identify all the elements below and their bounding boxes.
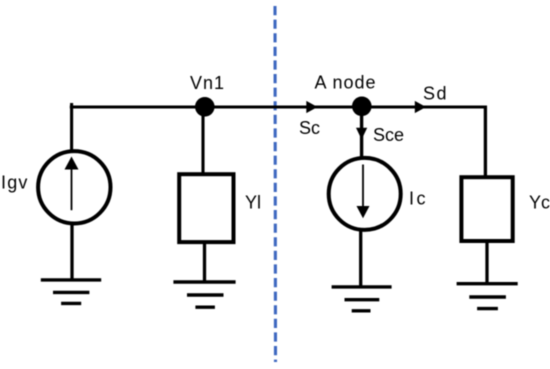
svg-text:Vn1: Vn1 bbox=[190, 73, 225, 93]
ground (Ic) bbox=[332, 287, 392, 311]
svg-text:Igv: Igv bbox=[1, 172, 29, 192]
wire top horizontal (Igv node to Yc corner) bbox=[70, 105, 487, 108]
wire Igv source to ground bbox=[70, 224, 73, 280]
current source Ic bbox=[329, 158, 401, 230]
partition dashed line bbox=[273, 6, 277, 362]
node Vn1 bbox=[195, 97, 215, 117]
ground (Igv) bbox=[41, 280, 101, 304]
arrowhead Sc on top wire bbox=[306, 101, 317, 113]
wire A node to Ic source bbox=[360, 107, 363, 158]
wire right vertical (corner down to Yc box) bbox=[484, 106, 487, 177]
wire left vertical (top wire down to Igv source) bbox=[70, 103, 73, 151]
ground (Yl) bbox=[173, 282, 235, 307]
ground (Yc) bbox=[457, 284, 518, 309]
wire Yl box to ground bbox=[203, 243, 206, 282]
svg-text:Sce: Sce bbox=[373, 125, 404, 145]
svg-text:Yc: Yc bbox=[529, 192, 550, 212]
admittance box Yl bbox=[179, 174, 233, 242]
svg-text:Yl: Yl bbox=[245, 193, 261, 213]
wire Ic source to ground bbox=[359, 230, 362, 287]
arrowhead Sd on top wire bbox=[415, 101, 426, 113]
node A bbox=[352, 97, 372, 117]
current source Igv bbox=[38, 151, 110, 223]
wire Yc box to ground bbox=[485, 242, 488, 284]
wire Vn1 to Yl box bbox=[201, 107, 204, 174]
svg-text:Ic: Ic bbox=[409, 189, 428, 209]
arrowhead Sce (down, on A node wire) bbox=[356, 128, 367, 140]
svg-text:Sc: Sc bbox=[299, 118, 320, 138]
admittance box Yc bbox=[461, 177, 512, 241]
svg-text:A node: A node bbox=[315, 73, 377, 93]
svg-text:Sd: Sd bbox=[423, 83, 448, 103]
